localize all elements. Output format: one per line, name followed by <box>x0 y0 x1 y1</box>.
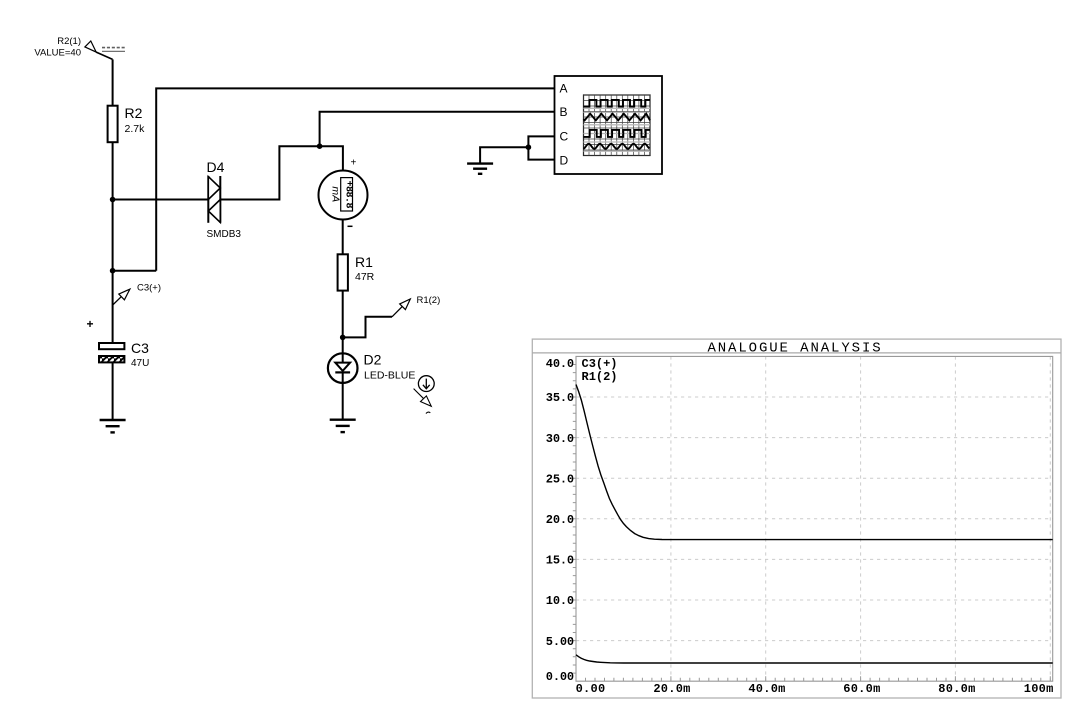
probe R1(2) arrow <box>392 299 410 317</box>
probe C3(+) <box>112 289 130 305</box>
wire ammeter to R1 <box>342 220 344 255</box>
svg-text:80.0m: 80.0m <box>938 682 975 696</box>
svg-text:15.0: 15.0 <box>546 554 574 568</box>
wire D4 to B-branch <box>220 146 319 199</box>
wire node to C3 <box>112 271 114 343</box>
svg-text:0.00: 0.00 <box>576 682 606 696</box>
capacitor C3 bottom plate (hatched) <box>99 356 124 362</box>
junction node B <box>317 143 323 149</box>
LED D2 <box>328 353 358 383</box>
analogue analysis chart frame <box>532 339 1061 698</box>
junction node left-2 <box>110 268 116 274</box>
svg-text:D: D <box>560 153 569 167</box>
svg-text:5.00: 5.00 <box>546 635 574 649</box>
wire node down <box>112 200 114 271</box>
wire R1 to node <box>342 291 344 338</box>
wire node B to ammeter <box>320 146 343 170</box>
svg-text:R1(2): R1(2) <box>582 370 618 384</box>
svg-text:R1: R1 <box>355 254 373 270</box>
DC symbol dashes <box>102 48 125 52</box>
scope waveform square 2 <box>584 130 651 137</box>
ammeter minus terminal <box>348 225 353 227</box>
generator probe R2(1) DC source <box>85 41 113 59</box>
svg-text:C: C <box>560 130 569 144</box>
junction node left-1 <box>110 197 116 203</box>
diode D4 (bidirectional suppressor) <box>208 176 220 223</box>
svg-text:2.7k: 2.7k <box>125 123 146 135</box>
svg-text:40.0: 40.0 <box>546 357 574 371</box>
svg-text:C3: C3 <box>131 340 149 356</box>
svg-text:+: + <box>86 317 93 331</box>
plot border and axes <box>576 356 1053 681</box>
svg-text:35.0: 35.0 <box>546 391 574 405</box>
svg-text:R2: R2 <box>125 105 143 121</box>
resistor R1 <box>338 254 348 290</box>
capacitor C3 top plate <box>99 343 124 349</box>
LED light indicator arrows <box>414 376 435 414</box>
ground at scope <box>467 164 493 174</box>
scope screen <box>584 95 651 156</box>
svg-text:25.0: 25.0 <box>546 472 574 486</box>
svg-text:47U: 47U <box>131 358 149 369</box>
svg-text:LED-BLUE: LED-BLUE <box>364 369 415 381</box>
chart gridlines <box>576 356 1053 681</box>
scope waveform triangle <box>584 114 651 121</box>
oscilloscope body <box>555 76 663 174</box>
title underline <box>532 352 1061 354</box>
svg-text:R2(1): R2(1) <box>57 36 81 47</box>
axis tick marks <box>571 365 1050 682</box>
svg-text:D4: D4 <box>207 159 225 175</box>
svg-text:ANALOGUE ANALYSIS: ANALOGUE ANALYSIS <box>707 340 882 356</box>
wire A-branch vertical and to scope A <box>156 88 554 270</box>
svg-text:C3(+): C3(+) <box>137 283 161 294</box>
svg-text:C3(+): C3(+) <box>582 357 618 371</box>
svg-text:VALUE=40: VALUE=40 <box>34 48 81 59</box>
x axis labels <box>576 682 1054 696</box>
wire node B to scope B <box>320 112 555 146</box>
svg-text:10.0: 10.0 <box>546 594 574 608</box>
wire node to A-branch <box>113 270 157 272</box>
trace C3(+) <box>576 385 1053 540</box>
svg-text:20.0m: 20.0m <box>653 682 690 696</box>
svg-text:20.0: 20.0 <box>546 513 574 527</box>
trace R1(2) <box>576 655 1053 663</box>
svg-text:40.0m: 40.0m <box>748 682 785 696</box>
wire D2 to ground <box>342 383 344 420</box>
svg-text:60.0m: 60.0m <box>843 682 880 696</box>
junction node CD <box>526 144 532 150</box>
svg-text:A: A <box>560 82 568 96</box>
svg-text:SMDB3: SMDB3 <box>207 229 242 240</box>
ground below D2 <box>330 420 356 432</box>
wire R2 to node <box>112 142 114 199</box>
svg-text:47R: 47R <box>355 271 375 283</box>
ammeter U1 <box>319 171 368 220</box>
wire CD node to ground <box>480 147 528 163</box>
probe R1(2) wire <box>343 317 392 338</box>
svg-text:B: B <box>560 105 568 119</box>
wire scope D <box>528 147 554 159</box>
wire gen to R2 <box>112 59 114 105</box>
svg-text:+: + <box>351 158 357 169</box>
svg-text:mA: mA <box>329 186 341 202</box>
svg-text:100m: 100m <box>1024 682 1054 696</box>
y axis labels <box>546 357 574 684</box>
svg-text:+88.8: +88.8 <box>343 181 354 209</box>
svg-text:30.0: 30.0 <box>546 432 574 446</box>
wire scope C <box>528 136 554 147</box>
scope waveform square 1 <box>584 100 651 107</box>
svg-text:0.00: 0.00 <box>546 670 574 684</box>
resistor R2 <box>108 106 118 143</box>
svg-text:R1(2): R1(2) <box>417 295 441 306</box>
scope waveform sine <box>584 144 650 149</box>
wire node to D2 <box>342 337 344 353</box>
wire C3 to ground <box>112 362 114 420</box>
ground below C3 <box>100 420 126 432</box>
wire node to D4 <box>113 199 209 201</box>
junction node R1-D2 <box>340 335 346 341</box>
svg-text:D2: D2 <box>364 351 382 367</box>
